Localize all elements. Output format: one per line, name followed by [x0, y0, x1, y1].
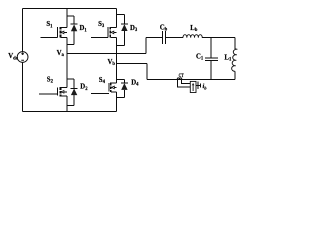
wire left vertical upper — [22, 8, 24, 51]
svg-text:C1: C1 — [196, 53, 204, 61]
transistor S1 — [41, 8, 67, 53]
wire top rail — [23, 7, 117, 9]
svg-text:Vdc: Vdc — [8, 53, 18, 61]
svg-text:L1: L1 — [224, 54, 232, 62]
svg-text:D1: D1 — [80, 25, 88, 33]
svg-text:D2: D2 — [80, 84, 88, 92]
battery symbol at sensor output — [198, 82, 201, 90]
inductor Lb — [183, 35, 202, 38]
wire top output path — [146, 37, 235, 39]
svg-text:S4: S4 — [99, 77, 106, 85]
wire left vertical lower — [22, 62, 24, 111]
node Vb wire — [117, 64, 147, 80]
diode D1 — [67, 16, 78, 45]
node Va wire — [67, 52, 146, 54]
wire Va riser — [145, 38, 147, 54]
transistor S2 — [39, 53, 67, 111]
svg-text:Cb: Cb — [160, 24, 168, 32]
svg-text:ib: ib — [203, 83, 208, 90]
wire CT secondary — [177, 79, 190, 87]
svg-text:S3: S3 — [98, 21, 105, 29]
svg-text:CT: CT — [179, 74, 184, 79]
svg-text:S1: S1 — [46, 21, 53, 29]
capacitor C1 — [205, 38, 218, 80]
current transformer CT — [177, 78, 182, 79]
transistor S4 — [91, 64, 116, 112]
wire bottom rail — [23, 110, 117, 112]
svg-text:D3: D3 — [130, 25, 138, 33]
svg-text:S2: S2 — [47, 76, 54, 84]
svg-text:D4: D4 — [131, 80, 139, 88]
diode D2 — [67, 79, 78, 105]
wire bottom output rail — [147, 78, 235, 80]
transistor S3 — [91, 8, 117, 63]
wire sensor output — [196, 84, 198, 86]
svg-text:Lb: Lb — [190, 25, 198, 33]
svg-text:Vb: Vb — [108, 59, 116, 67]
inductor L1 — [232, 38, 238, 80]
source Vdc — [17, 52, 28, 63]
sensor box (current sense) — [190, 81, 196, 92]
diode D3 — [117, 15, 128, 46]
diode D4 — [117, 80, 128, 98]
capacitor Cb — [163, 31, 166, 44]
svg-text:Va: Va — [57, 50, 65, 58]
